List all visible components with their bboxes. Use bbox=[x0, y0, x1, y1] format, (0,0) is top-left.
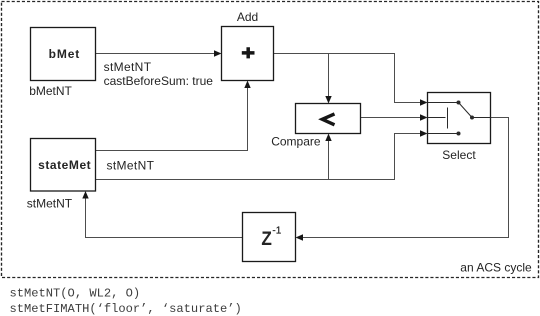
svg-text:an ACS cycle: an ACS cycle bbox=[460, 261, 532, 275]
svg-text:-1: -1 bbox=[272, 225, 281, 236]
svg-text:Compare: Compare bbox=[271, 134, 321, 148]
svg-text:stMetNT: stMetNT bbox=[27, 197, 73, 211]
svg-text:stMetNT: stMetNT bbox=[104, 60, 152, 74]
svg-text:bMetNT: bMetNT bbox=[29, 84, 72, 98]
svg-text:stMetFIMATH(‘floor’, ‘saturate: stMetFIMATH(‘floor’, ‘saturate’) bbox=[10, 302, 242, 316]
svg-text:castBeforeSum: true: castBeforeSum: true bbox=[104, 74, 214, 88]
svg-text:stMetNT: stMetNT bbox=[107, 159, 155, 173]
svg-text:Add: Add bbox=[237, 10, 258, 24]
svg-text:stateMet: stateMet bbox=[38, 158, 91, 172]
svg-text:stMetNT(O, WL2, O): stMetNT(O, WL2, O) bbox=[10, 286, 141, 300]
svg-text:Select: Select bbox=[442, 148, 476, 162]
svg-text:bMet: bMet bbox=[49, 47, 81, 61]
svg-text:Z: Z bbox=[261, 227, 271, 249]
